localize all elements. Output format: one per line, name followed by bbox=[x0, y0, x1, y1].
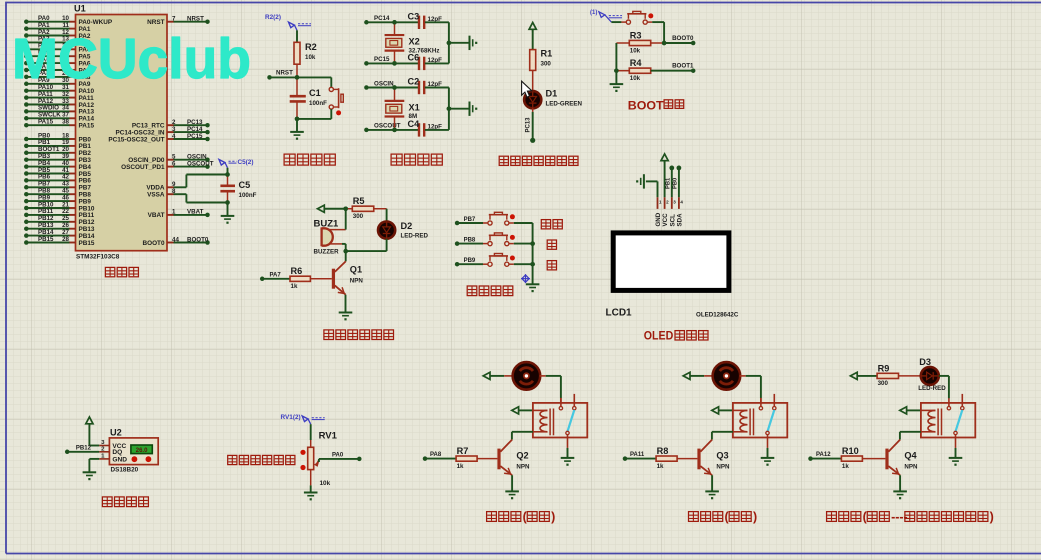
svg-text:PB15: PB15 bbox=[38, 236, 54, 243]
svg-text:RV1: RV1 bbox=[319, 431, 338, 442]
transistor Q3 NPN bbox=[697, 449, 700, 470]
label program LED title bbox=[499, 156, 508, 165]
LED D1 LED-GREEN bbox=[524, 91, 541, 108]
ground (crystal) bbox=[469, 102, 471, 116]
pin PB13 (26) wire bbox=[24, 226, 29, 231]
wire to ground bbox=[449, 108, 470, 110]
svg-text:BOOT0: BOOT0 bbox=[672, 35, 694, 42]
pin PB4 (40) wire bbox=[24, 164, 29, 169]
svg-text:U2: U2 bbox=[110, 428, 122, 438]
power arrow (R9) bbox=[850, 372, 857, 379]
svg-text:C4: C4 bbox=[408, 119, 421, 129]
pin PA5 (15) wire bbox=[24, 54, 29, 59]
module U2 DS18B20 bbox=[109, 438, 158, 465]
wire D2 to node bbox=[386, 239, 388, 251]
svg-text:): ) bbox=[990, 510, 994, 524]
svg-text:R7: R7 bbox=[457, 446, 469, 456]
button key PB8 bbox=[483, 243, 488, 245]
svg-text:VBAT: VBAT bbox=[187, 209, 204, 216]
wire coil bottom to Q collector bbox=[512, 431, 533, 433]
power flag (1) bbox=[599, 12, 605, 18]
svg-text:DS18B20: DS18B20 bbox=[111, 467, 139, 474]
wire PA11 bbox=[623, 456, 628, 461]
wire relay contact to ground bbox=[767, 448, 769, 458]
svg-text:R3: R3 bbox=[630, 30, 642, 40]
svg-text:BUZZER: BUZZER bbox=[314, 249, 340, 256]
svg-text:300: 300 bbox=[878, 380, 889, 387]
wire key PB8 to trunk bbox=[514, 243, 533, 245]
pin GND (1) bbox=[657, 197, 659, 209]
label crystal circuit title bbox=[391, 154, 402, 165]
wire relay contact to ground bbox=[955, 448, 957, 458]
power flag C5(2) bbox=[219, 160, 225, 166]
svg-text:(1): (1) bbox=[590, 10, 597, 16]
pin SCL (3) bbox=[671, 197, 673, 209]
power arrow (U2 VCC) bbox=[86, 417, 93, 424]
ground (relay) bbox=[761, 457, 775, 459]
capacitor C6 12pF bbox=[395, 62, 419, 64]
wire D3 to relay bbox=[939, 375, 949, 377]
wire PA12 bbox=[808, 456, 813, 461]
wire key PB9 to trunk bbox=[514, 263, 533, 265]
svg-text:R2(2): R2(2) bbox=[265, 14, 281, 21]
ground (Q4) bbox=[893, 490, 907, 492]
svg-text:R5: R5 bbox=[353, 196, 365, 206]
svg-text:C1: C1 bbox=[309, 88, 321, 98]
svg-text:BOOT1: BOOT1 bbox=[672, 63, 694, 70]
pin PA1 (11) wire bbox=[24, 26, 29, 31]
label 加 bbox=[547, 240, 556, 249]
display 26.0 bbox=[131, 445, 152, 454]
pin PA4 (14) wire bbox=[24, 47, 29, 52]
ground (OLED, left) bbox=[643, 174, 645, 188]
power arrow (relay coil) bbox=[512, 407, 519, 414]
svg-text:1k: 1k bbox=[842, 463, 849, 470]
svg-text:10k: 10k bbox=[320, 480, 331, 487]
wire PC15 bbox=[364, 61, 369, 66]
resistor R9 300 bbox=[877, 373, 898, 378]
wire PB9 bbox=[455, 262, 460, 267]
wire buzzer bottom to node bbox=[345, 244, 347, 251]
svg-text:RV1(2): RV1(2) bbox=[281, 414, 301, 421]
node PC15 junction bbox=[392, 61, 397, 66]
resistor R7 1k bbox=[456, 456, 477, 461]
svg-text:300: 300 bbox=[353, 213, 364, 220]
wire Q4 emitter to ground bbox=[899, 475, 901, 491]
ground (C5) bbox=[221, 215, 235, 217]
display LCD1 OLED128642C bbox=[613, 233, 729, 291]
svg-text:): ) bbox=[551, 510, 555, 524]
node R5 left bbox=[343, 207, 348, 212]
pin PB3 (39) wire bbox=[24, 157, 29, 162]
svg-text:Q3: Q3 bbox=[716, 451, 728, 461]
wire BOOT1 bbox=[651, 70, 694, 72]
pin GND (1) bbox=[99, 458, 109, 460]
wire power to RV1 bbox=[310, 424, 312, 440]
wire PC14 bbox=[364, 20, 369, 25]
svg-text:OSCOUT_PD1: OSCOUT_PD1 bbox=[121, 164, 165, 171]
ground (Q1) bbox=[339, 312, 353, 314]
wire VSSA to C5 bbox=[174, 193, 187, 195]
svg-text:GND: GND bbox=[112, 456, 127, 463]
capacitor C4 12pF bbox=[395, 129, 419, 131]
wire NRST bbox=[267, 75, 272, 80]
svg-text:PC13: PC13 bbox=[526, 117, 532, 133]
wire RV1 wiper to PA0 bbox=[318, 459, 320, 462]
ground (RV1) bbox=[304, 492, 318, 494]
svg-text:R9: R9 bbox=[878, 363, 890, 373]
wire OLED VCC bbox=[664, 161, 666, 198]
resistor R6 1k bbox=[290, 276, 310, 281]
capacitor C5 100nF bbox=[227, 175, 229, 186]
svg-text:100nF: 100nF bbox=[309, 100, 327, 107]
label buzzer circuit title bbox=[324, 330, 334, 340]
label formaldehyde adj title bbox=[228, 455, 237, 464]
wire boot button to trunk bbox=[652, 21, 664, 23]
svg-text:Q1: Q1 bbox=[350, 265, 362, 275]
svg-text:PB8: PB8 bbox=[464, 238, 476, 244]
svg-text:PC15: PC15 bbox=[374, 56, 390, 63]
wire power to R9 bbox=[857, 375, 877, 377]
pin PA9 (30) wire bbox=[24, 82, 29, 87]
wire coil bottom to Q collector bbox=[900, 431, 921, 433]
capacitor C3 12pF bbox=[395, 21, 419, 23]
pin PA10 (31) wire bbox=[24, 88, 29, 93]
wire net VBAT bbox=[174, 214, 208, 216]
wire R6 to Q1 base bbox=[310, 278, 331, 280]
wire OLED SCL (PB1) bbox=[669, 166, 674, 171]
svg-text:VBAT: VBAT bbox=[148, 212, 165, 219]
svg-text:STM32F103C8: STM32F103C8 bbox=[76, 254, 120, 261]
ground (Q3) bbox=[705, 490, 719, 492]
wire power to coil bbox=[907, 409, 921, 411]
wire C3 to gnd rail bbox=[425, 21, 449, 23]
pin PA12 (33) wire bbox=[24, 102, 29, 107]
node C5 bottom bbox=[225, 200, 230, 205]
wire R2 top bbox=[296, 30, 298, 42]
svg-text:PB0: PB0 bbox=[673, 178, 679, 189]
svg-text:PB7: PB7 bbox=[464, 217, 476, 223]
ground (boot) bbox=[610, 83, 624, 85]
ground (reset) bbox=[290, 131, 304, 133]
node gnd rail bbox=[447, 106, 452, 111]
label temp module title bbox=[102, 497, 112, 507]
wire net PC14 bbox=[174, 131, 208, 133]
label relay purify title bbox=[689, 512, 699, 522]
svg-text:U1: U1 bbox=[74, 4, 86, 14]
resistor R1 300 bbox=[530, 50, 536, 71]
wire PB7 bbox=[455, 221, 460, 226]
node trunk PB8 bbox=[530, 241, 535, 246]
pin PA0 (10) wire bbox=[24, 19, 29, 24]
wire C6 to gnd rail bbox=[425, 62, 449, 64]
svg-text:R1: R1 bbox=[541, 49, 553, 59]
label main chip title bbox=[105, 267, 114, 276]
svg-text:NRST: NRST bbox=[147, 19, 164, 26]
pin PB9 (46) wire bbox=[24, 199, 29, 204]
pin PB1 (19) wire bbox=[24, 144, 29, 149]
power flag RV1(2) bbox=[302, 416, 308, 422]
svg-text:NRST: NRST bbox=[187, 16, 204, 23]
wire R2 bottom to NRST node bbox=[296, 64, 298, 77]
wire C1 to ground bbox=[296, 119, 298, 132]
wire R9 to D3 bbox=[899, 375, 921, 377]
wire buzzer top bbox=[345, 209, 347, 230]
svg-text:R6: R6 bbox=[291, 266, 303, 276]
svg-text:BOOT0: BOOT0 bbox=[142, 240, 164, 247]
wire net OSCOUT bbox=[174, 166, 208, 168]
pin PB6 (42) wire bbox=[24, 178, 29, 183]
svg-text:C2: C2 bbox=[408, 77, 420, 87]
button key PB7 bbox=[483, 222, 488, 224]
node OSCOUT junction bbox=[392, 128, 397, 133]
svg-text:SDA: SDA bbox=[677, 213, 684, 227]
svg-text:LED-RED: LED-RED bbox=[918, 385, 946, 392]
node C1 bottom bbox=[295, 117, 300, 122]
wire power to boot button bbox=[605, 15, 612, 22]
node PC13 bbox=[530, 138, 535, 143]
wire OLED SDA (PB0) bbox=[677, 166, 682, 171]
svg-text:BOOT: BOOT bbox=[628, 98, 664, 112]
LED D3 LED-RED bbox=[921, 367, 939, 385]
op: main chip U1 STM32F103C8 bbox=[76, 15, 168, 251]
svg-text:OLED: OLED bbox=[644, 328, 674, 342]
svg-text:PA15: PA15 bbox=[38, 119, 54, 126]
pin PA8 (29) wire bbox=[24, 75, 29, 80]
svg-text:OSCOUT: OSCOUT bbox=[374, 123, 401, 130]
wire GND (U2) bbox=[89, 458, 99, 460]
wire trunk to ground bbox=[615, 71, 617, 84]
svg-text:PA15: PA15 bbox=[79, 123, 95, 130]
power arrow (motor) bbox=[683, 372, 690, 379]
pin PB15 (28) wire bbox=[24, 240, 29, 245]
relay RL (purify) bbox=[733, 403, 787, 438]
power arrow (motor) bbox=[483, 372, 490, 379]
wire OSCIN bbox=[364, 85, 369, 90]
wire R3 right bbox=[651, 42, 664, 44]
motor (fan) bbox=[504, 375, 513, 377]
ground (U2) bbox=[83, 471, 97, 473]
svg-text:D3: D3 bbox=[919, 357, 931, 367]
wire R3 left to trunk bbox=[616, 42, 629, 44]
svg-text:Q2: Q2 bbox=[516, 451, 528, 461]
svg-text:R8: R8 bbox=[657, 446, 669, 456]
svg-text:10k: 10k bbox=[630, 47, 641, 54]
svg-text:300: 300 bbox=[541, 60, 552, 67]
svg-text:MCUclub: MCUclub bbox=[12, 27, 251, 91]
power arrow (buzzer) bbox=[318, 205, 325, 212]
pin PB0 (18) wire bbox=[24, 137, 29, 142]
wire OSCOUT bbox=[364, 128, 369, 133]
crystal X1 8M bbox=[394, 88, 396, 101]
svg-text:X2: X2 bbox=[409, 37, 420, 47]
svg-text:VCC: VCC bbox=[662, 213, 669, 227]
svg-text:NPN: NPN bbox=[516, 464, 530, 471]
resistor R4 10k bbox=[629, 68, 650, 73]
wire Q3 emitter to ground bbox=[711, 475, 713, 491]
indicator dots bbox=[132, 456, 138, 462]
resistor R3 10k bbox=[629, 40, 650, 45]
resistor R5 300 bbox=[346, 208, 353, 210]
svg-text:PA8: PA8 bbox=[430, 452, 442, 458]
pin PA11 (32) wire bbox=[24, 95, 29, 100]
svg-text:28: 28 bbox=[62, 236, 69, 243]
power arrow (relay coil) bbox=[900, 407, 907, 414]
mouse cursor bbox=[522, 81, 532, 97]
svg-text:D1: D1 bbox=[546, 89, 558, 99]
resistor R10 1k bbox=[841, 456, 862, 461]
svg-text:GND: GND bbox=[655, 212, 662, 226]
node trunk PB9 bbox=[530, 262, 535, 267]
svg-text:NRST: NRST bbox=[276, 70, 293, 77]
svg-text:C3: C3 bbox=[408, 11, 420, 21]
pin PA2 (12) wire bbox=[24, 33, 29, 38]
wire net PC13 bbox=[174, 124, 208, 126]
svg-text:R4: R4 bbox=[630, 58, 643, 68]
wire D1 to PC13 bbox=[532, 108, 534, 112]
svg-text:VSSA: VSSA bbox=[147, 192, 165, 199]
resistor R2 10k bbox=[294, 42, 300, 64]
wire BOOT0 bbox=[664, 42, 693, 44]
wire R1 to D1 bbox=[532, 70, 534, 91]
wire OLED GND bbox=[646, 180, 658, 182]
node NRST junction bbox=[295, 75, 300, 80]
svg-text:PC14: PC14 bbox=[374, 15, 390, 22]
svg-text:DQ: DQ bbox=[112, 449, 122, 456]
capacitor C2 12pF bbox=[395, 87, 419, 89]
wire motor to relay bbox=[540, 375, 546, 377]
ground (Q2) bbox=[505, 490, 519, 492]
pin PB5 (41) wire bbox=[24, 171, 29, 176]
node PC14 junction bbox=[392, 20, 397, 25]
pin VCC (2) bbox=[664, 197, 666, 209]
svg-text:PB1: PB1 bbox=[665, 177, 671, 189]
pin PB11 (22) wire bbox=[24, 213, 29, 218]
pin SWCLK (37) wire bbox=[24, 116, 29, 121]
wire VDDA to C5 bbox=[174, 186, 187, 188]
wire Q1 emitter to ground bbox=[345, 295, 347, 313]
svg-text:NPN: NPN bbox=[716, 464, 730, 471]
potentiometer RV1 10k bbox=[310, 440, 312, 447]
wire R10 to Q4 bbox=[862, 458, 885, 460]
wire net OSCIN bbox=[174, 159, 208, 161]
pin VCC (3) bbox=[99, 445, 109, 447]
svg-text:10k: 10k bbox=[630, 75, 641, 82]
wire to ground bbox=[449, 42, 470, 44]
transistor Q1 NPN bbox=[332, 269, 335, 289]
wire power to coil bbox=[719, 409, 733, 411]
junction dots overlay bbox=[662, 41, 667, 46]
svg-text:1k: 1k bbox=[657, 463, 664, 470]
pin PA7 (17) wire bbox=[24, 68, 29, 73]
svg-text:C6: C6 bbox=[408, 52, 420, 62]
wire power to motor bbox=[690, 375, 704, 377]
node Q1 collector bbox=[343, 249, 348, 254]
pin PA6 (16) wire bbox=[24, 61, 29, 66]
svg-text:NPN: NPN bbox=[350, 278, 364, 285]
svg-text:OSCIN: OSCIN bbox=[374, 80, 394, 87]
svg-text:1k: 1k bbox=[291, 283, 298, 290]
pin SWDIO (34) wire bbox=[24, 109, 29, 114]
wire coil bottom to Q collector bbox=[712, 431, 733, 433]
svg-text:D2: D2 bbox=[401, 221, 413, 231]
resistor R8 1k bbox=[656, 456, 677, 461]
svg-text:SCL: SCL bbox=[669, 214, 676, 227]
svg-text:PA12: PA12 bbox=[816, 452, 831, 458]
wire power to R5 node bbox=[324, 208, 345, 210]
power arrow (relay coil) bbox=[712, 407, 719, 414]
wire key PB7 to trunk bbox=[514, 222, 533, 224]
svg-text:): ) bbox=[753, 510, 757, 524]
wire PB8 bbox=[455, 241, 460, 246]
svg-text:C5: C5 bbox=[239, 180, 251, 190]
wire power to coil bbox=[519, 409, 533, 411]
svg-text:LED-GREEN: LED-GREEN bbox=[546, 101, 583, 108]
pin PA3 (13) wire bbox=[24, 40, 29, 45]
wire node to Q1 bbox=[345, 251, 347, 261]
pin PA15 (38) wire bbox=[24, 123, 29, 128]
svg-text:38: 38 bbox=[62, 119, 69, 126]
LED D2 LED-RED bbox=[378, 222, 395, 239]
svg-text:1k: 1k bbox=[457, 463, 464, 470]
node C5 top bbox=[225, 172, 230, 177]
svg-text:R2: R2 bbox=[305, 42, 317, 52]
node R4 junction bbox=[614, 68, 619, 73]
pin PB12 (25) wire bbox=[24, 220, 29, 225]
power arrow (OLED VCC) bbox=[661, 154, 668, 161]
crystal X2 32.768KHz bbox=[394, 22, 396, 34]
svg-text:PA7: PA7 bbox=[270, 272, 282, 278]
svg-text:OSCOUT: OSCOUT bbox=[187, 160, 214, 167]
ground (relay) bbox=[949, 457, 963, 459]
pin SDA (4) bbox=[678, 197, 680, 209]
wire PB12 to DQ bbox=[65, 450, 70, 455]
relay RL (heat) bbox=[921, 403, 975, 438]
label relay fan title bbox=[487, 512, 497, 522]
button reset (vertical) bbox=[330, 77, 332, 87]
wire R5 to D2 bbox=[374, 208, 387, 210]
wire Q2 emitter to ground bbox=[511, 475, 513, 491]
motor (fan) bbox=[704, 375, 713, 377]
wire C4 to gnd rail bbox=[425, 129, 449, 131]
ground (crystal) bbox=[469, 36, 471, 50]
pin DQ (2) bbox=[99, 451, 109, 453]
svg-text:PB15: PB15 bbox=[79, 240, 95, 247]
button boot bbox=[621, 21, 626, 23]
relay RL (fan) bbox=[533, 403, 587, 438]
wire C2 to gnd rail bbox=[425, 87, 449, 89]
wire motor to relay bbox=[740, 375, 746, 377]
ground (relay) bbox=[561, 457, 575, 459]
node BOOT0 junction bbox=[662, 41, 667, 46]
wire C5 to ground bbox=[227, 203, 229, 216]
svg-text:2: 2 bbox=[101, 446, 104, 452]
power arrow (R1) bbox=[529, 23, 536, 30]
wire RV1 bottom to ground bbox=[310, 470, 312, 486]
button key PB9 bbox=[483, 263, 488, 265]
wire net NRST bbox=[174, 21, 208, 23]
wire power to R1 bbox=[532, 29, 534, 49]
svg-text:Q4: Q4 bbox=[904, 451, 917, 461]
label 减 bbox=[547, 261, 556, 270]
svg-text:R10: R10 bbox=[842, 446, 859, 456]
svg-text:PB12: PB12 bbox=[76, 446, 92, 452]
wire net PC15 bbox=[174, 138, 208, 140]
svg-text:BOOT0: BOOT0 bbox=[187, 236, 209, 243]
svg-text:100nF: 100nF bbox=[239, 192, 257, 199]
ground (keys) bbox=[526, 283, 540, 285]
marker origin (blue) bbox=[522, 275, 529, 282]
